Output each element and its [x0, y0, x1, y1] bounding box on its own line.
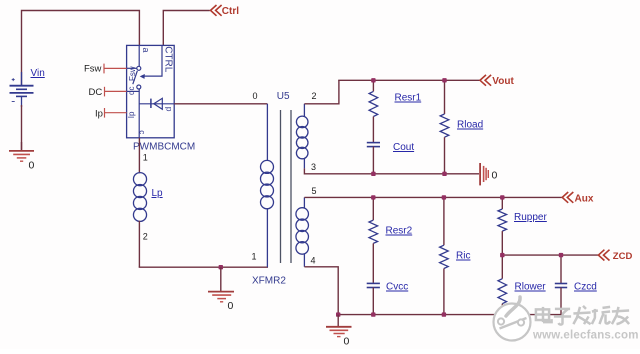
svg-text:Vout: Vout	[492, 76, 514, 87]
svg-text:2: 2	[312, 91, 317, 101]
svg-text:0: 0	[344, 336, 350, 348]
svg-text:Cvcc: Cvcc	[386, 282, 408, 293]
svg-text:ZCD: ZCD	[613, 251, 633, 262]
svg-text:c: c	[137, 130, 146, 134]
svg-text:Cout: Cout	[393, 142, 414, 153]
svg-text:p: p	[165, 107, 175, 112]
svg-text:3: 3	[311, 162, 316, 172]
svg-text:Fsw: Fsw	[84, 64, 102, 75]
svg-text:Resr2: Resr2	[386, 226, 413, 237]
svg-text:4: 4	[311, 256, 316, 266]
svg-text:Rload: Rload	[457, 120, 483, 131]
svg-text:DC: DC	[89, 87, 103, 98]
svg-text:Ctrl: Ctrl	[222, 6, 239, 17]
svg-text:a: a	[141, 48, 151, 53]
svg-text:0: 0	[29, 160, 35, 172]
svg-text:Aux: Aux	[575, 193, 594, 204]
svg-text:0: 0	[253, 91, 258, 101]
svg-text:1: 1	[252, 252, 257, 262]
svg-text:2: 2	[143, 232, 148, 242]
svg-text:www.elecfans.com: www.elecfans.com	[532, 330, 639, 342]
svg-text:PWMBCMCM: PWMBCMCM	[133, 142, 195, 153]
svg-text:dc: dc	[127, 87, 136, 95]
svg-text:Ric: Ric	[456, 251, 470, 262]
svg-text:Fsw: Fsw	[128, 66, 137, 81]
svg-text:5: 5	[312, 186, 317, 196]
svg-text:Rupper: Rupper	[514, 212, 547, 223]
svg-text:Lp: Lp	[152, 188, 164, 199]
svg-text:0: 0	[492, 170, 498, 182]
svg-text:CTRL: CTRL	[163, 46, 174, 73]
svg-text:Vin: Vin	[31, 68, 45, 79]
svg-text:U5: U5	[277, 91, 290, 102]
svg-text:XFMR2: XFMR2	[252, 276, 286, 287]
svg-text:Czcd: Czcd	[574, 282, 597, 293]
svg-text:1: 1	[143, 153, 148, 163]
svg-text:Resr1: Resr1	[395, 93, 422, 104]
svg-text:Ip: Ip	[95, 109, 103, 120]
svg-text:0: 0	[228, 300, 234, 312]
svg-text:Rlower: Rlower	[515, 282, 547, 293]
svg-text:Ip: Ip	[127, 111, 136, 118]
